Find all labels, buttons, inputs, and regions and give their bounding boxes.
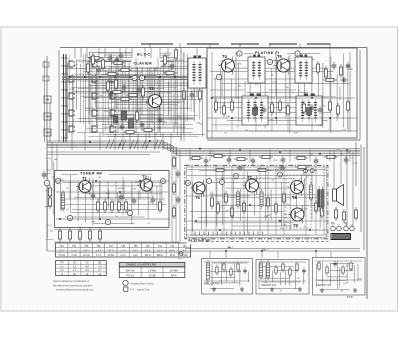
svg-text:1,4 MHz: 1,4 MHz: [148, 271, 158, 273]
bus taps: [195, 232, 263, 236]
wire: [311, 118, 313, 131]
switch contact S6: [92, 61, 98, 67]
resistor R36: [189, 156, 203, 159]
resistor R19: [141, 128, 155, 131]
platine FI box: [207, 48, 357, 138]
capacitor C28: [132, 197, 137, 205]
wire: [267, 166, 269, 235]
left rail part 2: [43, 76, 49, 81]
switch contact S14: [110, 126, 116, 132]
switch contact S10: [92, 126, 98, 132]
left rail part: [43, 62, 49, 67]
test point P17: [310, 169, 314, 173]
wire right drop 3: [363, 147, 365, 250]
wire mesh platine FI: [210, 54, 350, 134]
capacitor C10: [140, 121, 145, 129]
resistor R17: [118, 97, 132, 100]
wire mesh circuit OC: [317, 261, 358, 290]
resistor R16: [114, 77, 117, 91]
antenna connector J2: [44, 113, 51, 120]
switch contact S8: [92, 93, 98, 99]
resistor R22: [316, 61, 319, 75]
wire: [330, 251, 332, 258]
capacitor C6: [170, 62, 175, 70]
wire top tick: [269, 43, 271, 48]
inductor L GO: [259, 260, 262, 280]
resistor R53: [48, 185, 51, 199]
antenna connector J1: [44, 96, 51, 103]
wire tuner mid: [56, 191, 169, 193]
wire: [99, 133, 101, 150]
capacitor C29: [151, 196, 156, 204]
wire: [104, 48, 106, 59]
svg-text:tensions Must of Nesul: tensions Must of Nesul: [131, 283, 155, 286]
resistor R28: [230, 99, 233, 113]
IF transformer FI3: [242, 94, 268, 126]
wire: [159, 48, 161, 59]
wire: [96, 58, 98, 133]
resistor R55: [172, 155, 175, 169]
wire top tick: [149, 43, 151, 48]
wire leader q: [302, 172, 311, 182]
resistor R41: [324, 155, 338, 158]
capacitor C23: [281, 156, 286, 164]
whiteout: [78, 170, 109, 176]
coil L2b: [114, 116, 118, 123]
svg-text:4,7K: 4,7K: [267, 215, 272, 217]
circuit OC box: [313, 258, 366, 296]
transistor T1: [76, 178, 91, 195]
svg-text:PO GO: PO GO: [126, 276, 134, 278]
svg-text:MF FI: MF FI: [171, 276, 177, 278]
wire: [349, 150, 351, 162]
resistor R54: [48, 195, 51, 209]
resistor R34: [336, 103, 339, 117]
circuit GO box: [256, 260, 309, 295]
svg-text:4,7K: 4,7K: [226, 116, 231, 118]
legend symbol square: [124, 287, 128, 291]
wire: [196, 48, 198, 59]
svg-text:22K: 22K: [273, 160, 277, 162]
wire mesh left rail: [45, 158, 54, 239]
test point P5: [295, 51, 300, 56]
resistor R14: [91, 53, 94, 67]
resistor R30: [278, 99, 281, 113]
socket pin 2: [337, 226, 342, 231]
resistor R2: [101, 57, 104, 71]
wire: [349, 52, 351, 132]
capacitor C30: [42, 171, 47, 179]
resistor R71: [334, 207, 337, 221]
wire: [98, 48, 100, 59]
svg-text:PO: PO: [60, 263, 64, 265]
wire: [175, 150, 177, 243]
capacitor C32: [176, 196, 181, 204]
capacitor C37: [333, 261, 337, 268]
svg-text:CLAVIER: CLAVIER: [134, 62, 152, 66]
switch bar tick: [62, 89, 69, 91]
wire: [135, 58, 137, 133]
test point P11: [161, 179, 166, 184]
harness wire: [47, 145, 174, 147]
wire: [249, 150, 251, 162]
wire clavier-FI divider b: [183, 52, 185, 141]
wire: [209, 251, 211, 258]
wire: [333, 150, 335, 189]
resistor R39: [259, 155, 273, 158]
resistor R80: [289, 267, 291, 278]
harness cable slash: [106, 140, 110, 150]
wire: [289, 150, 291, 162]
resistor R74: [216, 265, 218, 276]
circuit FG box: [202, 259, 253, 295]
switch contact S7: [92, 76, 98, 82]
svg-text:4,7K: 4,7K: [281, 225, 286, 227]
wire: [117, 58, 119, 133]
harness wire: [47, 146, 177, 148]
test point P18: [207, 179, 212, 184]
svg-text:T55: T55: [84, 246, 89, 248]
svg-text:PLATINE FI: PLATINE FI: [255, 51, 279, 55]
capacitor C20: [204, 157, 209, 165]
svg-text:TAB 2: TAB 2: [262, 249, 269, 252]
schematic frame top edge: [60, 47, 367, 49]
wire: [189, 150, 191, 162]
transistor T2: [138, 177, 153, 194]
capacitor C31: [176, 170, 181, 178]
inductor L5: [260, 189, 263, 209]
wire: [289, 60, 291, 98]
svg-text:8,2K: 8,2K: [121, 65, 126, 67]
wire: [107, 181, 109, 199]
wire clavier-FI divider: [180, 48, 182, 141]
resistor R66: [314, 200, 317, 214]
resistor R57: [172, 205, 175, 219]
svg-text:T60: T60: [146, 246, 151, 248]
wire: [235, 52, 237, 98]
schematic frame right edge: [366, 48, 368, 300]
svg-text:22K: 22K: [135, 182, 139, 184]
svg-text:4,7K: 4,7K: [273, 82, 278, 84]
test point P1: [132, 75, 137, 80]
capacitor C13: [332, 62, 337, 70]
ground: [270, 287, 274, 291]
test point P7: [67, 215, 72, 220]
output transformer: [318, 186, 324, 212]
capacitor C34: [278, 166, 286, 171]
wire: [346, 150, 348, 226]
svg-text:T51: T51: [60, 246, 65, 248]
test point P19: [234, 174, 239, 179]
wire: [225, 251, 227, 258]
svg-text:2,2K: 2,2K: [353, 163, 358, 165]
resistor R32: [302, 101, 305, 115]
resistor R10: [123, 130, 137, 133]
socket pin 3: [344, 226, 349, 231]
test point P10: [56, 179, 61, 184]
IF transformer FI1: [248, 55, 265, 84]
wire: [151, 181, 153, 199]
platine BF box inner: [187, 167, 327, 237]
wire: [173, 58, 175, 133]
resistor R51: [88, 228, 91, 242]
resistor R56: [172, 181, 175, 195]
frame top dash: [141, 43, 173, 45]
svg-text:PLATINE BF: PLATINE BF: [189, 239, 211, 243]
svg-text:8,2K: 8,2K: [148, 202, 153, 204]
switch contact S11: [110, 76, 116, 82]
wire top tick: [179, 43, 181, 48]
wire: [123, 181, 125, 199]
wire: [231, 118, 233, 131]
wire bottom feed: [47, 250, 360, 252]
clavier value labels: [70, 65, 203, 136]
svg-text:4,7K: 4,7K: [105, 198, 110, 200]
wire top tick: [299, 43, 301, 48]
harness cable slash: [142, 140, 146, 150]
harness cable slash: [130, 140, 134, 150]
test point P9: [127, 210, 132, 215]
svg-text:CIRCUIT OC: CIRCUIT OC: [316, 283, 331, 287]
speaker HP: [333, 185, 344, 206]
resistor R8: [126, 93, 140, 96]
frame top dash: [187, 43, 219, 45]
resistor R75: [223, 262, 225, 273]
harness wire left a: [47, 151, 160, 153]
wire: [329, 150, 331, 162]
wire: [283, 166, 285, 235]
resistor R81: [296, 262, 298, 273]
test point P16: [304, 169, 308, 173]
wire: [229, 150, 231, 162]
wire FI bus 3: [207, 130, 357, 132]
resistor R3: [111, 61, 125, 64]
wire top tick: [239, 43, 241, 48]
svg-text:T8: T8: [292, 195, 298, 200]
harness wire: [47, 140, 164, 142]
svg-text:CIRCUIT FG: CIRCUIT FG: [204, 282, 219, 286]
svg-text:10K: 10K: [153, 70, 157, 72]
wire: [352, 152, 354, 226]
wire: [74, 48, 76, 59]
whiteout: [187, 240, 207, 245]
wire: [277, 251, 279, 258]
capacitor C36: [302, 268, 306, 275]
svg-text:T57: T57: [109, 246, 114, 248]
wire: [119, 48, 121, 59]
bus wire 2: [62, 79, 205, 81]
transistor T8: [288, 178, 304, 196]
switch contact S1: [69, 61, 75, 67]
resistor R26: [214, 99, 217, 113]
resistor R31: [286, 103, 289, 117]
wire: [170, 133, 172, 150]
wire: [315, 251, 317, 258]
svg-text:T61: T61: [158, 246, 163, 248]
svg-text:Ω: Ω: [61, 274, 63, 276]
platine BF box: [185, 165, 328, 239]
resistor R76: [230, 267, 232, 278]
resistor R33: [328, 99, 331, 113]
wire: [255, 118, 257, 131]
svg-text:8 TR: 8 TR: [347, 295, 353, 299]
switch contact S9: [92, 110, 98, 116]
wire: [215, 166, 217, 235]
IF transformer FI4: [296, 94, 322, 126]
transistor T5: [190, 180, 205, 197]
wire: [211, 52, 213, 138]
resistor R13: [163, 71, 177, 74]
wire: [191, 166, 193, 235]
left rail value labels: [47, 159, 64, 232]
resistor R45: [117, 199, 120, 213]
wire: [171, 150, 173, 243]
harness cable slash: [118, 140, 122, 150]
platine FI box right inner: [359, 50, 361, 140]
wire: [215, 118, 217, 131]
wire: [114, 133, 116, 150]
resistor R1: [88, 55, 102, 60]
capacitor C1: [108, 54, 113, 62]
svg-text:4,7K: 4,7K: [70, 89, 75, 91]
wire BF low: [186, 229, 327, 231]
svg-text:T56: T56: [97, 246, 102, 248]
wire: [231, 166, 233, 235]
ground: [240, 287, 244, 291]
FI4 core: [306, 107, 312, 115]
wire BF top: [187, 169, 326, 171]
svg-text:4,7K: 4,7K: [237, 64, 242, 66]
test point P15: [278, 172, 283, 177]
svg-text:Toutes resistances ± la tolera: Toutes resistances ± la tolerance et: [53, 280, 89, 283]
wire: [269, 150, 271, 162]
wire: [175, 48, 177, 59]
wire: [145, 133, 147, 150]
tuner value labels: [66, 177, 167, 225]
svg-text:TAB 1: TAB 1: [227, 246, 234, 249]
wire: [56, 145, 58, 171]
resistor R35: [346, 99, 349, 113]
wire: [137, 133, 139, 150]
resistor R27: [222, 103, 225, 117]
resistor R58: [210, 195, 213, 209]
resistor R83: [326, 265, 328, 276]
wire tuner mid2: [60, 198, 165, 200]
resistor R15: [105, 72, 119, 75]
svg-text:6,8K: 6,8K: [153, 67, 158, 69]
inductor L4: [236, 189, 239, 209]
svg-text:OC: OC: [85, 263, 89, 265]
svg-text:des valeurs lues mesures au v: des valeurs lues mesures au voltmetre: [53, 284, 93, 287]
wire OC b: [315, 279, 362, 281]
inductor L GO2: [266, 260, 269, 280]
svg-text:8,2K: 8,2K: [294, 132, 299, 134]
svg-text:GAMMES COUVERTES PAR: GAMMES COUVERTES PAR: [126, 264, 157, 267]
resistor R85: [350, 261, 352, 272]
svg-text:T7: T7: [247, 175, 253, 180]
frame top dash: [269, 43, 297, 45]
frame top dash: [307, 43, 330, 45]
wire FI bus 2: [207, 117, 357, 119]
resistor R68: [213, 168, 227, 171]
wire below tuner: [54, 241, 180, 243]
wire: [162, 133, 164, 150]
capacitor C4: [137, 86, 142, 94]
inductor L FG: [206, 260, 209, 282]
svg-text:T2: T2: [142, 175, 148, 180]
resistor R46: [124, 199, 127, 213]
svg-text:TUNER MF: TUNER MF: [80, 172, 103, 176]
switch bar tick: [62, 81, 69, 83]
svg-text:T5: T5: [195, 195, 201, 200]
coil L2: [129, 119, 134, 128]
switch bar tick: [62, 73, 69, 75]
transistor T9: [288, 206, 304, 224]
switch contact S5: [69, 126, 75, 132]
resistor R23: [324, 66, 327, 80]
resistor R73: [354, 207, 357, 221]
wire: [309, 150, 311, 162]
wire: [210, 89, 244, 91]
table reglages header: [119, 263, 185, 267]
svg-text:2,2 K: 2,2 K: [120, 255, 126, 257]
switch contact S12: [110, 93, 116, 99]
capacitor C26: [91, 192, 96, 200]
capacitor C24: [314, 157, 319, 165]
capacitor C33: [236, 166, 244, 171]
capacitor C2: [119, 52, 124, 60]
wire: [221, 72, 223, 96]
resistor R42: [96, 199, 99, 213]
wire: [131, 48, 133, 59]
capacitor C18: [310, 104, 315, 112]
svg-text:6,8K: 6,8K: [161, 65, 166, 67]
capacitor C21: [227, 156, 232, 164]
wire BF top2: [187, 175, 326, 177]
wire: [287, 118, 289, 131]
svg-text:4,7K: 4,7K: [303, 208, 308, 210]
svg-text:T4: T4: [222, 54, 228, 59]
wire: [84, 133, 86, 150]
table gammes: [56, 261, 107, 276]
svg-text:T58: T58: [121, 246, 126, 248]
wire: [315, 166, 317, 235]
transistor T6: [274, 57, 290, 75]
resistor R24: [339, 64, 342, 78]
svg-text:10K: 10K: [47, 170, 51, 172]
resistor R65: [282, 191, 285, 205]
svg-text:T6: T6: [277, 54, 283, 59]
test point P8: [105, 219, 110, 224]
wire: [340, 150, 342, 184]
wire bottom feed 2: [185, 248, 360, 250]
svg-text:6,8K: 6,8K: [318, 125, 323, 127]
connector strip: [331, 234, 351, 240]
resistor R52: [98, 228, 101, 242]
wire: [144, 48, 146, 59]
wire: [115, 181, 117, 199]
harness cable slash: [154, 140, 158, 150]
resistor R82: [318, 261, 320, 272]
switch contact S13: [110, 110, 116, 116]
wire: [196, 88, 198, 96]
resistor R9: [135, 109, 138, 123]
svg-text:2,2K: 2,2K: [91, 222, 96, 224]
resistor R62: [242, 200, 245, 214]
resistor R38: [234, 157, 248, 160]
svg-text:56 Ω: 56 Ω: [170, 255, 175, 257]
capacitor C9: [109, 91, 114, 99]
